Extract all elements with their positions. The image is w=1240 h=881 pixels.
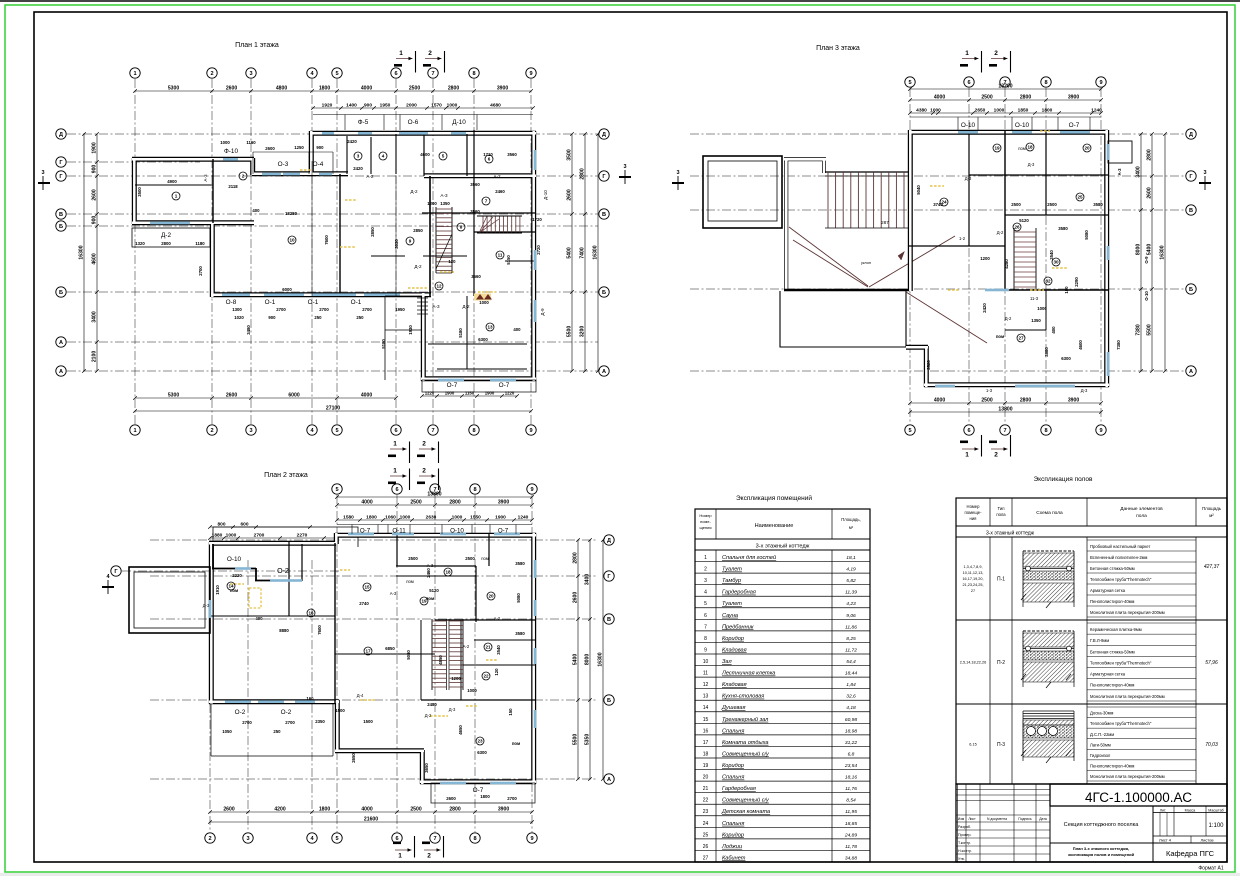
plan3 axis bubbles top bbox=[905, 77, 1106, 87]
svg-text:2600: 2600 bbox=[1146, 187, 1152, 198]
svg-text:3900: 3900 bbox=[498, 806, 509, 812]
svg-text:П-3: П-3 bbox=[997, 742, 1005, 748]
svg-text:2460: 2460 bbox=[495, 189, 505, 194]
svg-text:18,98: 18,98 bbox=[845, 728, 858, 734]
svg-text:Теплообмен труба"Thermotech": Теплообмен труба"Thermotech" bbox=[1090, 577, 1152, 582]
svg-text:17: 17 bbox=[703, 740, 709, 746]
svg-text:2600: 2600 bbox=[265, 146, 275, 151]
svg-text:1950: 1950 bbox=[395, 307, 405, 312]
svg-text:Б: Б bbox=[607, 698, 611, 704]
plan1 windows bottom-right block bbox=[438, 379, 516, 382]
plan3 stair top rail bbox=[825, 171, 908, 173]
svg-text:19: 19 bbox=[703, 763, 709, 769]
svg-text:6: 6 bbox=[394, 71, 397, 77]
svg-text:1000: 1000 bbox=[1037, 306, 1047, 311]
room table header rule bbox=[695, 538, 870, 540]
plan2 windows top wall bbox=[348, 533, 520, 536]
svg-text:4,18: 4,18 bbox=[846, 705, 856, 711]
floor table row rules bbox=[956, 619, 1227, 621]
plan1 bottom-right inner wall y344 bbox=[428, 343, 527, 345]
svg-text:1800: 1800 bbox=[480, 794, 490, 799]
svg-text:4000: 4000 bbox=[361, 85, 372, 91]
svg-text:1800: 1800 bbox=[1042, 107, 1053, 113]
plan2 section arrow left bbox=[102, 574, 114, 594]
svg-text:2220: 2220 bbox=[232, 573, 242, 578]
plan1 top dimension chain 1 bbox=[135, 90, 531, 92]
svg-text:5120: 5120 bbox=[1019, 218, 1029, 223]
svg-text:1000: 1000 bbox=[479, 300, 489, 305]
plan1 opening label boxes top bbox=[313, 115, 533, 131]
svg-text:2800: 2800 bbox=[1020, 94, 1031, 100]
plan1 top band partition x467 bbox=[466, 134, 468, 176]
svg-text:Коридор: Коридор bbox=[722, 832, 744, 838]
svg-text:4600: 4600 bbox=[91, 253, 97, 264]
plan1 top dimension chain 2 bbox=[313, 107, 533, 109]
plan3 horizontal axis lines bbox=[690, 134, 1185, 371]
plan1 vertical axis lines bbox=[135, 79, 531, 424]
svg-text:8: 8 bbox=[473, 836, 476, 842]
svg-text:34,88: 34,88 bbox=[845, 855, 858, 861]
plan3 inner wall y290 bbox=[1005, 289, 1108, 291]
svg-text:21,23,24,25,: 21,23,24,25, bbox=[962, 583, 983, 587]
svg-text:Ф-10: Ф-10 bbox=[224, 148, 239, 155]
plan2 outer double walls bbox=[335, 533, 536, 538]
svg-text:23,54: 23,54 bbox=[844, 763, 858, 769]
plan2 left wing porch below bbox=[210, 703, 212, 756]
svg-text:11-3: 11-3 bbox=[1030, 296, 1039, 301]
plan2 axis bubbles top bbox=[332, 484, 537, 494]
svg-text:13800: 13800 bbox=[998, 406, 1012, 412]
svg-text:В: В bbox=[59, 212, 63, 218]
svg-text:1900: 1900 bbox=[485, 390, 495, 395]
svg-text:5080: 5080 bbox=[406, 650, 411, 660]
plan3 section marks top bbox=[960, 50, 1011, 73]
plan3 inner wall y330 bbox=[1005, 329, 1046, 331]
svg-text:2720: 2720 bbox=[536, 245, 541, 255]
svg-text:16300: 16300 bbox=[1159, 245, 1165, 259]
svg-text:18,1: 18,1 bbox=[846, 555, 856, 561]
svg-text:18: 18 bbox=[703, 751, 709, 757]
svg-text:3580: 3580 bbox=[1058, 226, 1068, 231]
svg-text:3560: 3560 bbox=[470, 209, 480, 214]
svg-text:3900: 3900 bbox=[1068, 94, 1079, 100]
svg-text:экспликация полов и помещений: экспликация полов и помещений bbox=[1068, 852, 1135, 857]
svg-text:900: 900 bbox=[316, 145, 324, 150]
svg-text:5300: 5300 bbox=[168, 392, 179, 398]
plan3 opening label boxes bbox=[910, 117, 1101, 131]
svg-text:11,39: 11,39 bbox=[845, 590, 857, 596]
svg-text:5: 5 bbox=[908, 428, 911, 434]
svg-text:Кладовая: Кладовая bbox=[722, 647, 747, 653]
svg-text:А-3: А-3 bbox=[427, 563, 434, 568]
svg-text:пом: пом bbox=[481, 556, 489, 561]
plan3 windows top wall bbox=[958, 131, 1090, 134]
svg-text:1050: 1050 bbox=[222, 729, 232, 734]
svg-text:2850: 2850 bbox=[370, 227, 375, 237]
plan3 top overall 13200 bbox=[910, 88, 1101, 90]
svg-text:9: 9 bbox=[409, 239, 412, 244]
plan3 inner wall x1046 lower bbox=[1045, 290, 1047, 330]
plan3 inner wall x1046 bbox=[1045, 131, 1047, 215]
svg-text:7: 7 bbox=[704, 624, 707, 630]
svg-text:25: 25 bbox=[1077, 195, 1083, 200]
svg-text:План 1 этажа: План 1 этажа bbox=[235, 42, 279, 49]
plan1 bottom dimension chain 1 bbox=[135, 397, 396, 399]
plan3 right overall 16300 bbox=[1164, 134, 1166, 371]
svg-text:16,17,19,20,: 16,17,19,20, bbox=[962, 577, 983, 581]
plan2 section marks bottom bbox=[393, 836, 444, 860]
svg-text:1800: 1800 bbox=[366, 514, 377, 520]
svg-text:5500: 5500 bbox=[1146, 324, 1152, 335]
svg-text:О-2: О-2 bbox=[281, 709, 292, 716]
svg-text:900: 900 bbox=[268, 315, 276, 320]
svg-text:3: 3 bbox=[623, 164, 626, 170]
plan2 inner wall y620 bbox=[435, 619, 535, 621]
svg-text:5: 5 bbox=[908, 80, 911, 86]
svg-text:250: 250 bbox=[314, 315, 322, 320]
plan1 window label boxes О-3 О-4 bbox=[253, 151, 333, 153]
svg-text:3650: 3650 bbox=[424, 763, 429, 773]
svg-text:О-2: О-2 bbox=[277, 568, 289, 575]
floor row П-3 room numbers bbox=[969, 743, 976, 747]
plan1 top band partition x347 bbox=[346, 136, 348, 174]
kafedra cell bbox=[1153, 843, 1227, 862]
floor row П-2 layer texts bbox=[1087, 623, 1196, 701]
svg-text:600: 600 bbox=[240, 521, 248, 527]
plan1 axis bubbles top bbox=[130, 68, 536, 78]
plan2 room number circles bbox=[227, 568, 495, 745]
svg-text:3200: 3200 bbox=[579, 326, 585, 337]
svg-text:2500: 2500 bbox=[465, 556, 475, 561]
plan2 window left wall bbox=[209, 600, 212, 618]
svg-text:2800: 2800 bbox=[449, 499, 460, 505]
plan1 axis bubbles bottom bbox=[130, 425, 536, 435]
svg-text:23: 23 bbox=[477, 739, 483, 744]
svg-text:2480: 2480 bbox=[427, 702, 437, 707]
svg-text:250: 250 bbox=[273, 729, 281, 734]
svg-text:2118: 2118 bbox=[228, 184, 238, 189]
plan1 section arrow right bbox=[619, 164, 631, 184]
svg-text:Монолитная плита перекрытия-20: Монолитная плита перекрытия-200мм bbox=[1090, 610, 1165, 615]
svg-text:2: 2 bbox=[210, 71, 213, 77]
svg-text:О-9: О-9 bbox=[1144, 256, 1149, 264]
plan1 left dimension chain bbox=[96, 134, 98, 371]
svg-text:2800: 2800 bbox=[1020, 397, 1031, 403]
svg-text:1910: 1910 bbox=[215, 585, 220, 595]
floor table verticals bbox=[990, 498, 1196, 784]
plan1 entry marker triangles bbox=[474, 294, 492, 301]
svg-text:18,44: 18,44 bbox=[845, 671, 858, 677]
plan3 room number circles bbox=[940, 143, 1091, 342]
svg-text:Совмещенный с/у: Совмещенный с/у bbox=[722, 750, 770, 757]
svg-text:16300: 16300 bbox=[592, 245, 598, 259]
svg-text:180: 180 bbox=[1064, 286, 1069, 294]
svg-text:А-3: А-3 bbox=[390, 591, 397, 596]
svg-text:16: 16 bbox=[703, 728, 709, 734]
plan3 roof diagonal 2 bbox=[793, 240, 868, 287]
svg-text:3400: 3400 bbox=[1135, 166, 1141, 177]
svg-text:ния: ния bbox=[970, 516, 977, 521]
svg-text:1200: 1200 bbox=[451, 676, 461, 681]
svg-text:6,15: 6,15 bbox=[969, 743, 976, 747]
plan3 balcony window bbox=[1107, 144, 1110, 160]
svg-text:Д-2: Д-2 bbox=[1005, 316, 1012, 321]
plan1 interior dimension texts bbox=[135, 139, 542, 349]
svg-text:12: 12 bbox=[703, 682, 709, 688]
svg-text:3560: 3560 bbox=[471, 274, 481, 279]
svg-text:П-1: П-1 bbox=[997, 576, 1005, 582]
svg-text:2500: 2500 bbox=[409, 85, 420, 91]
svg-text:3560: 3560 bbox=[470, 182, 480, 187]
plan1 horizontal axis lines bbox=[67, 134, 598, 371]
svg-text:4380: 4380 bbox=[916, 107, 927, 113]
plan1 bottom-right inner wall x467 bbox=[466, 296, 468, 369]
svg-text:Монолитная плита перекрытия-20: Монолитная плита перекрытия-200мм bbox=[1090, 694, 1165, 699]
svg-text:2740: 2740 bbox=[359, 601, 369, 606]
svg-text:9: 9 bbox=[1099, 80, 1102, 86]
svg-text:1: 1 bbox=[398, 853, 402, 860]
svg-text:2700: 2700 bbox=[254, 532, 265, 538]
svg-text:900: 900 bbox=[91, 165, 97, 174]
plan1 inner wall x430 bbox=[429, 176, 431, 296]
plan1 inner wall y213 bbox=[422, 212, 535, 214]
svg-text:2650: 2650 bbox=[351, 753, 356, 763]
svg-text:2700: 2700 bbox=[285, 720, 295, 725]
svg-text:5500: 5500 bbox=[566, 326, 572, 337]
svg-text:2600: 2600 bbox=[226, 85, 237, 91]
svg-text:Тип: Тип bbox=[998, 506, 1005, 511]
svg-text:8880: 8880 bbox=[279, 628, 289, 633]
plan2 bottom overall 21600 bbox=[210, 821, 532, 823]
svg-text:9: 9 bbox=[529, 71, 532, 77]
svg-text:План 2 этажа: План 2 этажа bbox=[264, 472, 308, 479]
svg-text:4200: 4200 bbox=[274, 806, 285, 812]
svg-text:400: 400 bbox=[1051, 326, 1056, 334]
svg-text:Лит.: Лит. bbox=[1160, 809, 1167, 813]
svg-text:9,06: 9,06 bbox=[846, 613, 856, 619]
revision header texts bbox=[958, 817, 1047, 861]
plan2 axis bubbles right bbox=[604, 535, 614, 784]
svg-text:13: 13 bbox=[703, 694, 709, 700]
svg-text:2500: 2500 bbox=[981, 94, 992, 100]
svg-text:4: 4 bbox=[382, 154, 385, 159]
svg-text:2500: 2500 bbox=[408, 556, 418, 561]
svg-text:Д-3: Д-3 bbox=[449, 707, 456, 712]
plan1 top band partition x424 bbox=[423, 134, 425, 176]
svg-text:8: 8 bbox=[1044, 80, 1047, 86]
svg-text:2600: 2600 bbox=[572, 592, 578, 603]
svg-text:16: 16 bbox=[308, 611, 314, 616]
svg-text:В: В bbox=[1189, 208, 1193, 214]
svg-text:Разраб.: Разраб. bbox=[958, 825, 971, 829]
svg-text:6: 6 bbox=[394, 428, 397, 434]
svg-text:1800: 1800 bbox=[319, 85, 330, 91]
svg-text:6300: 6300 bbox=[1061, 356, 1071, 361]
svg-text:О-7: О-7 bbox=[447, 382, 458, 389]
svg-text:13200: 13200 bbox=[998, 83, 1012, 89]
plan3 bottom dimension chain bbox=[910, 402, 1101, 404]
svg-text:6: 6 bbox=[488, 157, 491, 162]
svg-text:Гардеробная: Гардеробная bbox=[722, 786, 756, 792]
plan3 building outer double walls bbox=[909, 130, 1108, 135]
svg-text:Данные элементов: Данные элементов bbox=[1120, 506, 1163, 512]
svg-text:Монолитная плита перекрытия-20: Монолитная плита перекрытия-200мм bbox=[1090, 774, 1165, 779]
svg-text:2460: 2460 bbox=[426, 568, 431, 578]
svg-text:9: 9 bbox=[530, 487, 533, 493]
svg-text:Д-10: Д-10 bbox=[543, 190, 548, 200]
svg-text:Гардеробная: Гардеробная bbox=[722, 590, 756, 596]
svg-text:1000: 1000 bbox=[930, 107, 941, 113]
svg-text:1,84: 1,84 bbox=[846, 682, 856, 688]
svg-text:4680: 4680 bbox=[490, 102, 501, 108]
svg-text:Пенополистирол-40мм: Пенополистирол-40мм bbox=[1090, 763, 1135, 768]
svg-text:1920: 1920 bbox=[322, 102, 333, 108]
floor table header texts bbox=[965, 504, 1222, 521]
svg-text:20: 20 bbox=[1084, 146, 1090, 151]
svg-text:2: 2 bbox=[427, 853, 431, 860]
svg-text:1: 1 bbox=[393, 441, 397, 448]
svg-text:26: 26 bbox=[1014, 225, 1020, 230]
svg-text:2290: 2290 bbox=[1074, 277, 1079, 287]
plan3 axis bubbles bottom bbox=[905, 425, 1106, 435]
svg-text:6: 6 bbox=[967, 80, 970, 86]
svg-text:О-10: О-10 bbox=[1144, 291, 1149, 301]
svg-text:2: 2 bbox=[428, 50, 432, 57]
floor row П-1 layer texts bbox=[1087, 540, 1196, 617]
svg-text:22: 22 bbox=[483, 674, 489, 679]
svg-text:1950: 1950 bbox=[380, 102, 391, 108]
plan2 inner wall x289 bbox=[288, 542, 290, 616]
svg-text:1: 1 bbox=[175, 194, 178, 199]
svg-text:3880: 3880 bbox=[1044, 347, 1049, 357]
svg-text:21: 21 bbox=[703, 786, 709, 792]
svg-text:6000: 6000 bbox=[282, 287, 292, 292]
bottom grey strip bbox=[0, 873, 1240, 876]
plan3 inner wall y215 bbox=[1005, 214, 1108, 216]
plan3 windows right wall bbox=[1107, 246, 1110, 376]
plan3 interior dimension texts bbox=[916, 168, 1149, 370]
plan3 roof upper walls bbox=[784, 158, 788, 291]
svg-text:23: 23 bbox=[703, 809, 709, 815]
svg-text:11: 11 bbox=[703, 671, 708, 677]
svg-text:1850: 1850 bbox=[1018, 107, 1029, 113]
svg-text:2270: 2270 bbox=[297, 532, 308, 538]
svg-text:2600: 2600 bbox=[446, 796, 456, 801]
plan2 inner wall x489 bbox=[488, 534, 490, 566]
plan3 section arrow right bbox=[1199, 170, 1211, 190]
svg-text:150: 150 bbox=[508, 708, 513, 716]
svg-text:7: 7 bbox=[431, 71, 434, 77]
svg-text:Утв.: Утв. bbox=[958, 857, 965, 861]
svg-text:пом: пом bbox=[996, 334, 1004, 339]
svg-text:О-4: О-4 bbox=[313, 161, 324, 168]
svg-text:120: 120 bbox=[494, 668, 499, 676]
svg-text:2630: 2630 bbox=[426, 514, 437, 520]
svg-text:Б: Б bbox=[59, 290, 63, 296]
svg-text:Бетонная стяжка-50мм: Бетонная стяжка-50мм bbox=[1090, 566, 1135, 571]
floor schema П-2 bbox=[1021, 631, 1074, 688]
svg-text:Провер.: Провер. bbox=[958, 833, 971, 837]
svg-text:О-1: О-1 bbox=[308, 299, 319, 306]
svg-text:Подпись: Подпись bbox=[1018, 817, 1032, 821]
svg-text:Душевая: Душевая bbox=[721, 705, 745, 711]
floor row П-3 layer texts bbox=[1087, 707, 1196, 781]
svg-text:Бетонная стяжка-50мм: Бетонная стяжка-50мм bbox=[1090, 649, 1135, 654]
plan2 top dimension chain 2 bbox=[337, 519, 532, 521]
svg-text:В: В bbox=[607, 617, 611, 623]
svg-text:Г.В.Л-9мм: Г.В.Л-9мм bbox=[1090, 638, 1109, 643]
svg-text:1580: 1580 bbox=[343, 514, 354, 520]
svg-text:7380: 7380 bbox=[1135, 324, 1141, 335]
svg-text:3560: 3560 bbox=[507, 152, 517, 157]
svg-text:3: 3 bbox=[41, 170, 44, 176]
svg-text:О-10: О-10 bbox=[450, 528, 464, 535]
svg-text:Д-2: Д-2 bbox=[462, 304, 470, 309]
svg-text:4600: 4600 bbox=[420, 152, 430, 157]
plan2 yellow markings bbox=[230, 570, 498, 716]
plan3 windows bottom wall bbox=[935, 385, 1075, 388]
svg-text:Спальня: Спальня bbox=[722, 728, 744, 734]
svg-text:Д.С.П.-22мм: Д.С.П.-22мм bbox=[1090, 732, 1114, 737]
svg-text:Номер: Номер bbox=[967, 504, 981, 509]
svg-text:5080: 5080 bbox=[516, 593, 521, 603]
svg-text:О-11: О-11 bbox=[392, 528, 406, 535]
plan1 outer double walls bbox=[310, 131, 536, 136]
svg-text:1: 1 bbox=[704, 555, 707, 561]
svg-text:4,23: 4,23 bbox=[846, 601, 856, 607]
plan2 inner wall x476 bbox=[475, 566, 477, 622]
svg-text:5400: 5400 bbox=[1146, 244, 1152, 255]
svg-text:287: 287 bbox=[881, 220, 889, 225]
svg-text:3: 3 bbox=[249, 428, 252, 434]
svg-text:3: 3 bbox=[676, 170, 679, 176]
svg-text:26: 26 bbox=[703, 844, 709, 850]
svg-text:4800: 4800 bbox=[276, 85, 287, 91]
svg-text:12: 12 bbox=[436, 284, 442, 289]
svg-text:3-х этажный коттедж: 3-х этажный коттедж bbox=[986, 530, 1035, 537]
svg-text:Д: Д bbox=[1189, 132, 1193, 138]
svg-text:Пробковый настильный паркет: Пробковый настильный паркет bbox=[1090, 544, 1150, 549]
plan2 windows right block bottom bbox=[440, 782, 516, 785]
svg-text:1900: 1900 bbox=[445, 390, 455, 395]
svg-text:8: 8 bbox=[472, 71, 475, 77]
svg-text:2850: 2850 bbox=[413, 228, 423, 233]
svg-text:Д-3: Д-3 bbox=[965, 176, 972, 181]
svg-text:Детская комната: Детская комната bbox=[721, 809, 770, 815]
svg-text:2420: 2420 bbox=[982, 303, 987, 313]
svg-text:10: 10 bbox=[703, 659, 709, 665]
svg-text:6300: 6300 bbox=[477, 750, 487, 755]
svg-text:Б: Б bbox=[602, 290, 606, 296]
svg-text:План 3-х этажного коттеджа,: План 3-х этажного коттеджа, bbox=[1073, 846, 1129, 851]
svg-text:1150: 1150 bbox=[465, 390, 475, 395]
svg-text:8: 8 bbox=[1044, 428, 1047, 434]
svg-text:11,78: 11,78 bbox=[845, 844, 857, 850]
svg-text:16300: 16300 bbox=[78, 245, 84, 259]
svg-text:Б: Б bbox=[59, 224, 63, 230]
svg-text:2800: 2800 bbox=[448, 85, 459, 91]
svg-text:120: 120 bbox=[448, 259, 456, 264]
svg-text:N документа: N документа bbox=[987, 817, 1007, 821]
svg-text:Арматурная сетка: Арматурная сетка bbox=[1090, 672, 1126, 677]
svg-text:Арматурная сетка: Арматурная сетка bbox=[1090, 588, 1126, 593]
plan2 porch bottom right bbox=[431, 783, 535, 803]
floor table outer border bbox=[956, 498, 1227, 784]
svg-text:1000: 1000 bbox=[467, 688, 477, 693]
svg-text:Д-2: Д-2 bbox=[414, 264, 422, 269]
svg-text:Изм: Изм bbox=[958, 817, 965, 821]
plan1 axis bubbles left bbox=[56, 129, 66, 376]
